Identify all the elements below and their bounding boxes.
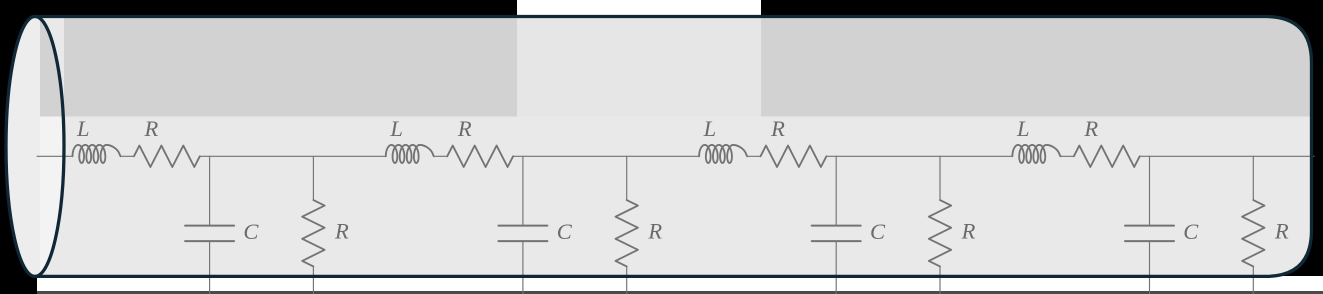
svg-text:C: C	[557, 219, 573, 244]
wire: node down to shunt resistor	[1252, 156, 1254, 200]
inductor L4	[1012, 145, 1060, 163]
svg-text:L: L	[76, 116, 90, 141]
wire: C3 down to ground bus	[835, 242, 837, 294]
svg-text:R: R	[770, 116, 785, 141]
ground bus bar at image bottom	[37, 291, 1323, 294]
series resistor R2	[447, 146, 513, 167]
shunt resistor R1m	[302, 200, 324, 266]
wire: R4 through nodes to next section	[1140, 155, 1314, 157]
svg-text:R: R	[1083, 116, 1098, 141]
series resistor R4	[1074, 146, 1140, 167]
svg-text:L: L	[703, 116, 717, 141]
end cap outline	[6, 16, 64, 276]
svg-text:C: C	[243, 219, 259, 244]
wire: L4 to R4	[1061, 155, 1074, 157]
inductor L1	[73, 145, 121, 163]
capacitor C2	[498, 226, 547, 242]
wire: node down to capacitor C3	[835, 156, 837, 224]
inductor L3	[699, 145, 747, 163]
wire: node down to capacitor C1	[209, 156, 211, 224]
wire: node down to shunt resistor	[312, 156, 314, 200]
wire: shunt resistor down to ground bus	[312, 266, 314, 294]
wire: node down to capacitor C2	[522, 156, 524, 224]
cylinder top shading band right	[761, 16, 1313, 117]
wire: shunt resistor down to ground bus	[626, 266, 628, 294]
white strip below cylinder	[37, 276, 1323, 291]
wire: C2 down to ground bus	[522, 242, 524, 294]
capacitor C4	[1125, 226, 1174, 242]
svg-text:C: C	[1183, 219, 1199, 244]
wire: R1 through nodes to next section	[200, 155, 386, 157]
cylinder top shading band middle (under white strip)	[517, 16, 761, 117]
white highlight strip (middle column)	[517, 0, 761, 294]
wire: R2 through nodes to next section	[513, 155, 699, 157]
wire: L1 to R1	[121, 155, 134, 157]
wire: node down to shunt resistor	[626, 156, 628, 200]
wire: shunt resistor down to ground bus	[1252, 266, 1254, 294]
cylinder top shading band left	[64, 16, 517, 117]
capacitor C3	[812, 226, 861, 242]
shunt resistor R3m	[929, 200, 951, 266]
svg-text:R: R	[457, 116, 472, 141]
svg-text:R: R	[1274, 219, 1289, 244]
end cap shading band	[40, 16, 66, 117]
capacitor C1	[185, 226, 234, 242]
svg-text:R: R	[961, 219, 976, 244]
svg-text:R: R	[647, 219, 662, 244]
svg-text:L: L	[389, 116, 403, 141]
svg-text:R: R	[144, 116, 159, 141]
wire: node down to shunt resistor	[939, 156, 941, 200]
wire: L2 to R2	[434, 155, 447, 157]
svg-text:C: C	[870, 219, 886, 244]
wire: left lead from end cap	[37, 155, 73, 157]
wire: C4 down to ground bus	[1149, 242, 1151, 294]
inductor L2	[386, 145, 434, 163]
wire: shunt resistor down to ground bus	[939, 266, 941, 294]
shunt resistor R4m	[1242, 200, 1264, 266]
wire: node down to capacitor C4	[1149, 156, 1151, 224]
shunt resistor R2m	[616, 200, 638, 266]
cylinder left end cap	[6, 16, 64, 276]
end cap circuit panel crescent	[40, 117, 66, 276]
wire: R3 through nodes to next section	[826, 155, 1012, 157]
series resistor R3	[761, 146, 827, 167]
wire: C1 down to ground bus	[209, 242, 211, 294]
series resistor R1	[134, 146, 200, 167]
wire: L3 to R3	[748, 155, 761, 157]
svg-text:R: R	[334, 219, 349, 244]
svg-text:L: L	[1016, 116, 1030, 141]
